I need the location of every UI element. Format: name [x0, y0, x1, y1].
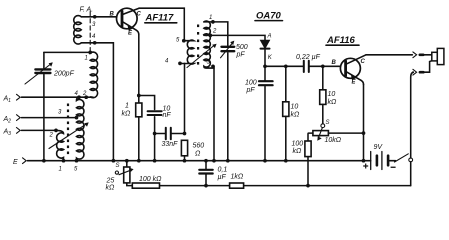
wire right rail: [411, 72, 414, 185]
svg-text:C: C: [137, 12, 142, 18]
svg-text:kΩ: kΩ: [328, 99, 338, 106]
ferrite core T1 dotted: [197, 25, 199, 65]
node junction 33nF left: [153, 132, 157, 136]
svg-text:10kΩ: 10kΩ: [325, 137, 342, 144]
wire P2 right to emitter line: [328, 132, 363, 134]
label 100 pF: [245, 80, 257, 95]
node A2 input connector: [17, 115, 21, 121]
connector jack lower plug: [413, 61, 432, 75]
svg-text:100: 100: [245, 80, 257, 87]
node S circle: [321, 124, 325, 128]
svg-text:AF117: AF117: [145, 13, 175, 24]
node junction R3 top: [284, 64, 288, 68]
svg-text:Ω: Ω: [195, 151, 201, 158]
transistor Q1 AF117: [117, 8, 140, 34]
node junction 33nF right: [183, 132, 187, 136]
node junction L1 top: [88, 51, 92, 55]
node junction K: [263, 64, 267, 68]
svg-text:10: 10: [328, 91, 336, 98]
wire A3 line: [22, 129, 57, 131]
node junction E rail pin3: [212, 159, 216, 163]
resistor R1 1k vertical: [136, 103, 142, 117]
node junction T1 pin5: [182, 39, 186, 43]
node junction E rail 1k: [137, 159, 141, 163]
wire Q1 collector to IF pin5: [139, 8, 184, 41]
node junction E rail FA4: [112, 159, 116, 163]
switch S1: [395, 154, 413, 162]
svg-text:A2: A2: [3, 116, 12, 125]
svg-text:3: 3: [58, 110, 62, 116]
svg-text:100 kΩ: 100 kΩ: [139, 176, 162, 183]
node junction E rail 200pF: [42, 159, 46, 163]
ferrite core dotted (main): [67, 104, 69, 155]
resistor R7 1k horizontal: [230, 183, 244, 188]
label OA70: [255, 11, 283, 22]
svg-text:B: B: [110, 12, 115, 18]
svg-text:3: 3: [92, 22, 96, 28]
resistor R6 100k horizontal: [132, 183, 159, 188]
svg-text:µF: µF: [218, 174, 227, 181]
node A1 input connector: [17, 94, 21, 100]
svg-text:5: 5: [74, 166, 78, 172]
wire FA pin4 down to E rail: [95, 43, 114, 161]
wire 560 to rail: [184, 156, 186, 161]
label 500 pF: [236, 44, 248, 59]
node junction tap 2: [54, 129, 58, 133]
wire Q2 collector to phone jack: [366, 54, 412, 56]
label AF117: [145, 13, 177, 24]
node junction E rail pot25: [125, 159, 129, 163]
svg-text:S: S: [116, 163, 120, 169]
node junction bottom rail 0.1uF: [204, 184, 208, 188]
arrow tuning core: [49, 122, 89, 148]
capacitor C4 500pF variable: [221, 41, 235, 161]
svg-text:S: S: [326, 120, 330, 126]
coil L1 left small winding: [56, 130, 64, 160]
svg-text:560: 560: [193, 143, 205, 150]
svg-text:1: 1: [209, 15, 212, 21]
label 10 kOhm R4: [328, 91, 338, 106]
svg-text:E: E: [352, 80, 357, 86]
diode D1 OA70: [261, 40, 270, 66]
svg-text:4: 4: [92, 34, 96, 40]
svg-text:kΩ: kΩ: [106, 185, 116, 192]
label AF116: [326, 35, 359, 46]
node junction tank 4: [77, 95, 81, 99]
svg-text:kΩ: kΩ: [293, 148, 303, 155]
potentiometer P1 25k: [115, 161, 133, 183]
coil L1 lower main winding: [77, 97, 84, 161]
svg-text:kΩ: kΩ: [122, 111, 132, 118]
svg-text:33nF: 33nF: [162, 141, 179, 148]
node junction E rail pin1: [62, 159, 66, 163]
svg-text:2: 2: [49, 133, 54, 139]
capacitor C7 0.1uF: [199, 161, 212, 186]
capacitor C2 10nF: [148, 111, 162, 160]
svg-text:500: 500: [236, 44, 248, 51]
capacitor C5 100pF: [259, 66, 273, 160]
wire bottom rail: [127, 183, 411, 186]
node junction T1 pin3: [211, 65, 215, 69]
node junction T1 tap2: [208, 34, 212, 38]
svg-text:1: 1: [85, 56, 88, 62]
node junction tank 2: [84, 95, 88, 99]
svg-text:kΩ: kΩ: [291, 112, 301, 119]
wire T1 tap2 to diode: [204, 35, 265, 40]
svg-text:0,1: 0,1: [218, 167, 228, 174]
capacitor 200pF variable: [25, 52, 53, 160]
resistor R4 10k: [320, 66, 326, 123]
wire A1 line: [22, 96, 94, 98]
node junction FA pin3: [93, 15, 97, 19]
arrow T1 tuning: [187, 44, 217, 68]
svg-text:E: E: [128, 31, 133, 37]
svg-text:1kΩ: 1kΩ: [231, 174, 244, 181]
svg-text:200pF: 200pF: [53, 71, 75, 78]
svg-text:0,22 µF: 0,22 µF: [296, 54, 321, 61]
transformer T1 IF left winding: [180, 40, 194, 64]
node junction E rail 500pF: [226, 159, 230, 163]
svg-text:nF: nF: [163, 112, 172, 119]
node junction emitter pot: [362, 131, 366, 135]
svg-text:K: K: [268, 55, 273, 61]
node junction emitter network: [137, 94, 141, 98]
node E input connector: [23, 158, 27, 164]
potentiometer P2 10k volume: [313, 128, 329, 141]
transistor Q2 AF116: [340, 55, 366, 85]
transformer T1 right winding: [204, 21, 214, 68]
label 0,1 uF: [218, 167, 228, 182]
resistor R5 100k: [305, 141, 311, 186]
coil FA coupling winding: [74, 16, 95, 45]
resistor R3 10k: [283, 66, 289, 160]
resistor R2 560: [181, 140, 187, 156]
wire P2 left to R5: [308, 133, 313, 141]
label 100 kOhm R5: [292, 141, 304, 156]
svg-text:C: C: [361, 59, 366, 65]
node junction FA pin4: [93, 41, 97, 45]
node junction E rail 560: [183, 159, 187, 163]
label plus: [363, 164, 368, 169]
wire T1 pin1 to 500pF: [204, 22, 228, 46]
wire K line to AF116 base: [265, 65, 341, 67]
svg-text:E: E: [13, 159, 18, 166]
wire T1 pin4 to 560: [184, 63, 186, 133]
wire A2 line: [22, 117, 78, 119]
label 10 kOhm R3: [291, 104, 301, 119]
svg-text:4: 4: [165, 59, 169, 65]
svg-text:F. A.: F. A.: [80, 7, 94, 14]
node junction tap 3: [75, 116, 79, 120]
label 10 nF: [163, 106, 172, 119]
svg-text:pF: pF: [236, 52, 246, 59]
wire FA pin3 to AF117 base: [95, 16, 117, 18]
node junction T1 pin1: [211, 20, 215, 24]
svg-text:100: 100: [292, 141, 304, 148]
svg-text:A1: A1: [3, 96, 12, 105]
label 25 kOhm P1: [106, 178, 116, 192]
svg-text:A3: A3: [3, 129, 12, 138]
svg-text:5: 5: [176, 38, 180, 44]
svg-text:pF: pF: [246, 87, 256, 94]
connector jack upper plug: [413, 52, 432, 58]
svg-text:1: 1: [59, 166, 62, 172]
node junction E rail 100pF: [263, 159, 267, 163]
node junction E rail R3: [284, 159, 288, 163]
svg-text:1: 1: [125, 103, 129, 110]
wire Q1 emitter down: [138, 35, 140, 161]
battery BT1 9V: [371, 152, 396, 170]
svg-text:B: B: [332, 60, 337, 66]
node A3 input connector: [17, 128, 21, 134]
capacitor C6 0.22uF: [304, 61, 309, 72]
svg-text:A: A: [267, 34, 272, 40]
ferrite core dashed (upper): [89, 12, 91, 53]
node junction B AF116: [321, 64, 325, 68]
svg-text:10: 10: [291, 104, 299, 111]
node junction E rail 0.1uF: [204, 159, 208, 163]
svg-text:9V: 9V: [374, 144, 384, 151]
node junction battery plus: [362, 159, 366, 163]
wire Q2 emitter down: [363, 85, 365, 161]
wire T1 pin3 down to rail: [213, 66, 215, 160]
capacitor C3 33nF: [155, 128, 185, 139]
node junction bottom rail R5: [306, 184, 310, 188]
label 1 kOhm R1: [122, 103, 132, 118]
wire E rail: [28, 160, 371, 162]
node junction E rail 10nF: [153, 159, 157, 163]
earphone: [432, 48, 444, 64]
label 560 Ohm: [193, 143, 205, 158]
node junction E rail pin5: [75, 159, 79, 163]
label minus: [391, 167, 396, 168]
coil L1 upper winding: [44, 52, 98, 98]
svg-text:2: 2: [212, 29, 217, 35]
wire emitter to C 10nF: [139, 96, 155, 110]
svg-text:25: 25: [106, 178, 115, 185]
svg-text:AF116: AF116: [326, 35, 356, 46]
node junction T1 pin4: [178, 62, 182, 66]
